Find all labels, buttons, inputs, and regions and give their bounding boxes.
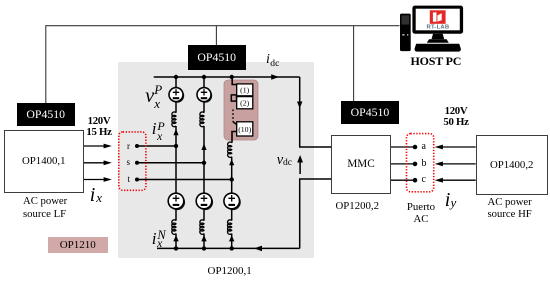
pin label r [127,141,130,151]
submodule (10) [237,122,253,136]
wire: MMC output b [389,163,415,165]
arrow: left arrow on bottom bus [254,246,262,252]
wire: phase s from node s to leg2 [137,162,204,164]
svg-text:RT-LAB: RT-LAB [427,25,450,31]
label v_dc [277,153,283,168]
voltage source lower leg1 [168,193,185,210]
label 120V 15 Hz [83,116,115,139]
wire: leg 1 segments [175,77,177,248]
wire: top DC bus [154,76,300,78]
red dashed box: Puerto AC abc port [407,134,434,192]
wire: dotted continuation (2)..(10) [233,110,237,125]
red dashed box: rst port [119,132,146,190]
wire: out of submodule (10) down to arm inductor [232,132,237,143]
submodule (1) [237,84,253,96]
link square between submodule (1) and (2) [231,95,236,101]
label OP1200,2 [336,200,380,212]
voltage source lower leg2 [196,193,213,210]
wire: bottom DC bus [157,247,300,249]
wire: right vertical from top bus to MMC top rail [299,77,301,147]
wire: drop to right OP4510 [353,26,355,101]
wire: MMC output c [389,179,415,181]
inductor lower arm leg3 [228,220,232,235]
label v_x^P [145,86,154,106]
node c terminal dot [413,178,418,183]
inductor lower arm leg2 [200,220,204,235]
label Puerto AC [399,201,443,226]
svg-text:(10): (10) [238,125,251,134]
label i_dc [266,53,270,67]
arrow: v_dc annotation arrow [297,155,303,174]
label HOST PC [411,54,462,69]
svg-text:(1): (1) [240,86,249,95]
label i_x^P [152,120,157,137]
wire: AC source LF output s with arrow [82,160,112,165]
wire: leg 2 segments [203,77,205,248]
label i_x [90,185,96,205]
label AC power source LF [23,195,67,219]
box OP4510 right [341,101,399,125]
node s terminal dot [135,161,139,165]
voltage source upper leg1 [169,88,184,103]
box OP4510 center [188,45,246,70]
inductor arm leg3 below submodules [228,142,232,157]
wire: MMC top rail [299,146,331,148]
junction dot node t-leg3 [230,177,234,181]
arrow: up arrow leg2 lower [201,235,206,241]
wire: leg 3 lower segments [231,157,233,249]
pin label s [127,157,131,167]
junction dots bottom bus [174,246,234,250]
HOST PC keyboard [414,44,460,52]
voltage source upper leg2 [197,88,212,103]
wire: into submodule (1) [232,77,237,85]
box OP1210 [48,237,108,253]
RT-LAB text [427,25,450,31]
junction dot node r-leg1 [174,144,178,148]
wire: phase r from node r to leg1 [137,145,176,147]
pin label t [128,174,131,184]
svg-text:(2): (2) [240,99,249,108]
junction dot node s-leg2 [202,161,206,165]
arrow: i_dc direction on top bus [271,74,279,80]
wire: host-pc link from left OP4510 up and across to PC [46,26,400,103]
submodule (2) [237,97,253,109]
node t terminal dot [135,178,139,182]
voltage source lower leg3 [224,193,241,210]
label OP1200,1 [208,265,252,277]
box OP1400,2 [476,135,548,195]
arrow: up arrow leg3 [229,159,234,165]
pink submodule stack box [224,80,258,140]
wire: MMC output a [389,146,415,148]
HOST PC monitor stand [427,34,449,43]
inductor upper arm leg2 [200,112,204,127]
node r terminal dot [135,144,139,148]
wire: drop to center OP4510 [215,26,217,46]
RT-LAB logo [430,10,446,23]
pin label a [422,141,426,152]
label i_y [445,190,451,210]
inductor upper arm leg1 [172,112,176,127]
node b terminal dot [413,162,418,167]
pin label b [422,158,427,169]
wire: right vertical from MMC bottom rail to bottom bus [299,179,301,248]
inductor lower arm leg1 [172,220,176,235]
box OP4510 left [17,103,75,126]
arrow: down arrow on right vertical [297,102,302,109]
wire: MMC bottom rail [299,178,331,180]
arrow: up arrow leg2 [201,144,206,151]
wire: phase t from node t to leg3 [137,179,232,181]
arrow: up arrow leg3 lower [229,235,234,241]
arrow: i_x^P up arrow leg1 [173,129,178,136]
junction dots top bus [174,75,234,79]
HOST PC monitor [412,6,463,34]
arrow: i_x^N up arrow leg1 lower [173,235,178,241]
gray background panel OP1200,1 [118,62,314,258]
wire: AC source HF output b with arrow [435,162,476,167]
label AC power source HF [488,196,532,220]
box MMC [331,135,391,194]
label 120V 50 Hz [440,106,472,129]
wire: AC source HF output a with arrow [435,145,476,150]
wire: AC source LF output r with arrow [82,144,112,149]
label i_x^N [152,230,157,247]
wire: AC source LF output t with arrow [82,177,112,182]
box OP1400,1 [4,130,84,193]
node a terminal dot [413,145,418,150]
wire: AC source HF output c with arrow [435,178,476,183]
HOST PC tower [400,14,411,52]
pin label c [422,174,426,185]
